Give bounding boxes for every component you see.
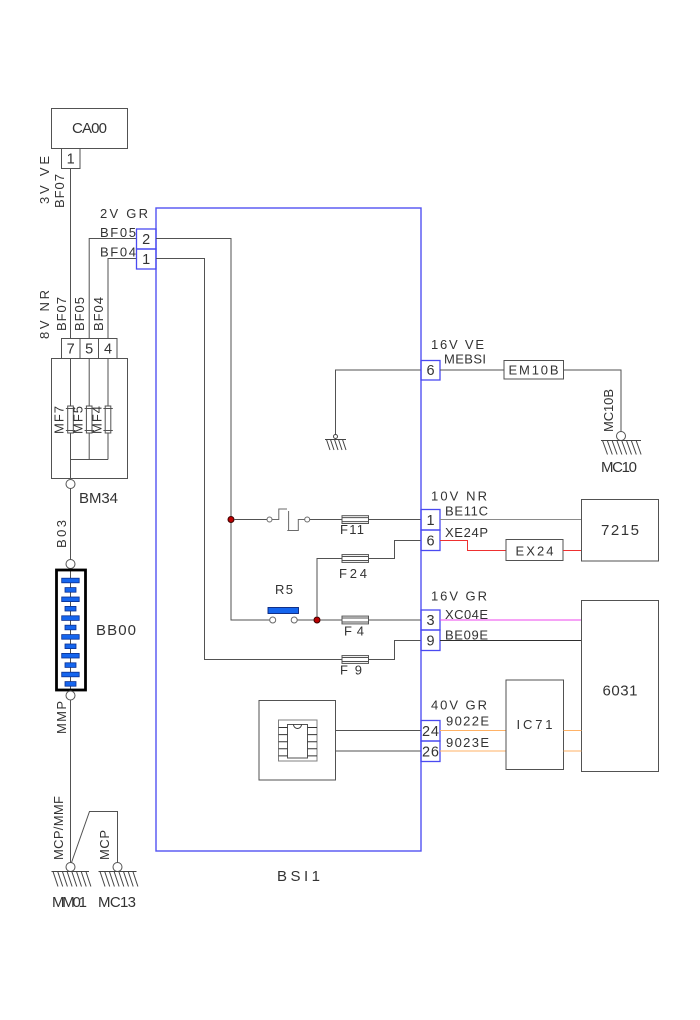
- node junction red: [228, 517, 234, 523]
- pin 6 MEBSI of BSI1: [421, 361, 440, 381]
- svg-text:MEBSI: MEBSI: [444, 352, 486, 367]
- connector EM10B: [504, 361, 564, 380]
- ECU box BSI1: [156, 208, 421, 851]
- pin 9 of BSI1: [421, 630, 440, 651]
- svg-text:9022E: 9022E: [446, 714, 489, 729]
- svg-text:F24: F24: [339, 566, 367, 581]
- fuse F9: [342, 656, 369, 664]
- svg-text:BM34: BM34: [79, 490, 118, 507]
- svg-text:26: 26: [422, 745, 439, 761]
- wire EM10B to MC10: [564, 370, 622, 432]
- wire BF05 to BSI pin 2: [89, 239, 136, 339]
- svg-text:MF5: MF5: [71, 406, 86, 434]
- battery BB00: [66, 560, 75, 569]
- pin 6 of BSI1 right: [421, 530, 440, 551]
- wire XE24P red: [440, 541, 506, 551]
- IC chip inside BSI1: [259, 701, 336, 781]
- component 6031: [582, 601, 659, 772]
- wire MCP branch: [72, 812, 118, 863]
- wire MMP: [70, 700, 72, 863]
- svg-text:MC13: MC13: [98, 894, 136, 911]
- svg-text:BB00: BB00: [96, 622, 136, 639]
- svg-text:7215: 7215: [601, 522, 639, 539]
- svg-text:6: 6: [426, 363, 434, 379]
- fuse MF4: [103, 406, 112, 433]
- ground MM01: [52, 863, 91, 887]
- svg-text:MCP: MCP: [97, 830, 112, 860]
- svg-text:6031: 6031: [603, 683, 638, 700]
- wire 9022E orange right: [564, 730, 582, 732]
- svg-text:BF04: BF04: [91, 297, 106, 331]
- wire 9023E orange right: [564, 750, 582, 752]
- wire from pin 1 inside BSI1: [156, 259, 421, 660]
- ground MC13: [99, 863, 138, 887]
- svg-text:3: 3: [426, 613, 434, 629]
- wire pin6 to EM10B: [440, 369, 504, 371]
- wire B03: [70, 489, 72, 560]
- wire 9022E orange left: [440, 730, 506, 732]
- wire F24 to pin 6: [369, 541, 422, 559]
- svg-text:R5: R5: [275, 582, 293, 597]
- svg-text:BSI1: BSI1: [277, 868, 320, 885]
- fuse F24: [342, 555, 369, 563]
- wire BF07 CA00 to BM34: [70, 169, 72, 339]
- svg-text:MC10: MC10: [601, 459, 637, 476]
- fusebox BM34: [52, 339, 128, 479]
- ground MC10: [601, 432, 641, 455]
- svg-text:BF07: BF07: [54, 297, 69, 331]
- fuse MF5: [85, 406, 94, 433]
- wire BE09E: [440, 640, 582, 642]
- svg-text:MM01: MM01: [52, 894, 87, 911]
- svg-text:16V GR: 16V GR: [431, 589, 487, 604]
- svg-text:BE11C: BE11C: [445, 504, 488, 519]
- svg-text:40V GR: 40V GR: [431, 698, 487, 713]
- pin 24 of BSI1: [421, 721, 440, 742]
- svg-text:6: 6: [426, 534, 434, 550]
- svg-text:F11: F11: [340, 522, 364, 537]
- svg-text:CA00: CA00: [72, 120, 107, 137]
- wires inside BM34: [71, 359, 109, 479]
- svg-text:BF05: BF05: [100, 225, 136, 240]
- wire R5 to junction: [297, 619, 342, 621]
- component 7215: [582, 500, 659, 562]
- wire F11 to pin 1: [369, 519, 422, 521]
- svg-text:2V GR: 2V GR: [100, 206, 148, 221]
- svg-text:BF05: BF05: [72, 297, 87, 331]
- pin 2 of BSI1: [137, 229, 157, 249]
- pin 1 of BSI1 right: [421, 510, 440, 531]
- wire 9023E orange left: [440, 750, 506, 752]
- wire BF04 to BSI pin 1: [108, 259, 137, 339]
- terminal of BM34: [66, 480, 75, 489]
- svg-text:EM10B: EM10B: [509, 363, 559, 378]
- fuse MF7: [66, 406, 75, 433]
- svg-text:9: 9: [426, 634, 434, 650]
- svg-text:5: 5: [85, 342, 93, 358]
- svg-text:B03: B03: [54, 520, 69, 548]
- svg-text:1: 1: [426, 513, 434, 529]
- wire F4 to pin 3: [369, 619, 422, 621]
- ground internal BSI: [325, 435, 346, 451]
- relay R5: [268, 608, 299, 624]
- wire from pin 2 inside BSI1: [156, 239, 270, 621]
- svg-text:BF04: BF04: [100, 245, 136, 260]
- svg-text:BF07: BF07: [52, 174, 67, 208]
- fuse F11: [342, 516, 369, 524]
- svg-text:1: 1: [142, 252, 150, 268]
- svg-text:24: 24: [422, 724, 439, 740]
- connector CA00: [52, 109, 128, 169]
- svg-text:MCP/MMF: MCP/MMF: [51, 796, 66, 860]
- wire BE11C: [440, 519, 582, 521]
- fuse F4: [342, 616, 369, 624]
- wire XC04E magenta: [440, 619, 582, 621]
- connector EX24: [506, 540, 563, 561]
- node junction red 2: [314, 617, 320, 623]
- svg-text:XE24P: XE24P: [445, 525, 488, 540]
- wire EX24 to 7215 red: [563, 550, 582, 552]
- wire chip to pin 26: [336, 750, 422, 752]
- wire chip to pin 24: [336, 730, 422, 732]
- svg-text:1: 1: [67, 152, 75, 168]
- svg-text:MC10B: MC10B: [601, 389, 616, 432]
- svg-text:7: 7: [67, 342, 75, 358]
- component IC71: [506, 680, 564, 770]
- svg-text:4: 4: [104, 342, 112, 358]
- svg-text:EX24: EX24: [516, 544, 554, 559]
- pin 1 of BSI1 left: [137, 249, 157, 269]
- svg-text:MF7: MF7: [52, 406, 67, 434]
- wire to switch: [234, 519, 267, 521]
- switch contact: [267, 509, 310, 531]
- wire MEBSI internal ground: [336, 370, 422, 435]
- svg-text:2: 2: [142, 232, 150, 248]
- wire switch to F11: [310, 519, 342, 521]
- pin 3 of BSI1: [421, 610, 440, 630]
- wire junction to F24: [317, 559, 342, 618]
- svg-text:MF4: MF4: [90, 406, 105, 434]
- svg-text:9023E: 9023E: [446, 735, 489, 750]
- pin 26 of BSI1: [421, 741, 440, 762]
- svg-text:MMP: MMP: [54, 701, 69, 734]
